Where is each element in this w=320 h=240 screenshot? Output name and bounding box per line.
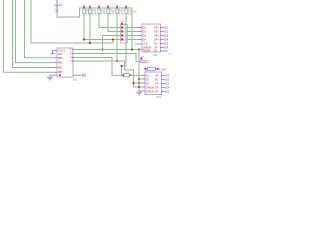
svg-text:NC: NC [154, 44, 158, 46]
node dot R14 end [116, 60, 118, 62]
svg-text:A/D1: A/D1 [163, 27, 169, 30]
svg-text:OP: OP [154, 48, 158, 50]
svg-text:RB2: RB2 [58, 67, 63, 69]
svg-text:RDWP: RDWP [143, 51, 150, 53]
svg-text:A/D7: A/D7 [163, 50, 169, 53]
svg-text:5V: 5V [134, 11, 137, 14]
IC U3 [142, 24, 161, 53]
IC U4 [145, 72, 162, 95]
resistor R10 [83, 9, 91, 15]
resistor R11 [89, 9, 97, 15]
wire net row4 upturn from y43 [112, 40, 114, 44]
wire stair line 4 [25, 0, 56, 58]
node dot bus drop [131, 48, 133, 50]
pin stubs U4 left [143, 75, 145, 91]
wire R12 down to pack pin1 [99, 14, 121, 28]
wire stub pin79 [139, 78, 143, 80]
power pin U2 top left [51, 51, 57, 54]
diode D2 [140, 57, 147, 64]
svg-text:X16: X16 [73, 78, 78, 82]
resistor R13 [107, 9, 115, 15]
svg-text:LPBUM: LPBUM [146, 91, 154, 93]
wire pin83 tap [134, 82, 144, 84]
ground right net [137, 91, 142, 95]
net labels U4 right [164, 75, 170, 94]
wire pack pin3 from P1 net [103, 36, 122, 50]
node dot pin83 cross [138, 82, 140, 84]
svg-text:NC: NC [155, 79, 159, 81]
wire bus stair line 1 [4, 0, 56, 72]
node dot at 87 [138, 86, 140, 88]
wire R15 down jog [122, 14, 127, 74]
wire bus end drop [131, 8, 133, 50]
resistor R14 [116, 9, 124, 15]
svg-text:X11: X11 [157, 95, 162, 99]
svg-text:LPBUM: LPBUM [143, 48, 151, 50]
svg-text:OP: OP [155, 75, 159, 77]
wire pack out 4 [127, 39, 140, 41]
node dot P1 tap [101, 48, 103, 50]
wire stair line 3 [16, 0, 56, 63]
svg-text:OP: OP [155, 87, 159, 89]
node junction pins on bus [83, 6, 127, 8]
resistor R16 horizontal [144, 68, 167, 72]
pin stubs U4 right [162, 76, 164, 92]
wire stub pin91 [139, 90, 143, 92]
resistor R15 [125, 9, 133, 15]
svg-text:A/D5: A/D5 [164, 91, 170, 94]
wire U2 out P2 with ground drop [75, 54, 141, 62]
svg-text:RA0: RA0 [58, 53, 63, 56]
node dot R15 end [120, 65, 122, 67]
IC U2 microcontroller [57, 48, 73, 77]
svg-text:OP1: OP1 [154, 27, 159, 29]
resistor pack RP1 [121, 22, 128, 43]
wire right vertical net [138, 50, 140, 92]
node dot R10 [83, 38, 85, 40]
svg-text:A/D5: A/D5 [163, 43, 169, 46]
svg-text:A/D1: A/D1 [164, 75, 170, 78]
node dot at 79 [138, 78, 140, 80]
svg-text:A/D3: A/D3 [164, 83, 170, 86]
pin stubs U2 left [56, 58, 58, 73]
wire U2 out P1 [75, 49, 143, 51]
svg-text:CLK: CLK [143, 44, 148, 46]
svg-text:OP3: OP3 [154, 35, 159, 37]
wire CLK stub [136, 43, 143, 45]
svg-text:4.7k: 4.7k [110, 12, 115, 15]
svg-text:4.7k: 4.7k [92, 12, 97, 15]
svg-text:ADT: ADT [162, 68, 167, 71]
svg-text:RB0: RB0 [58, 58, 63, 60]
node dot row4 join [112, 38, 114, 40]
wire R15 through pack [125, 25, 127, 44]
svg-text:A/D3: A/D3 [163, 35, 169, 38]
wire pack out 3 [127, 35, 140, 37]
power V5 [55, 0, 60, 10]
wire U2 out P3 [75, 58, 123, 76]
svg-text:CN: CN [124, 24, 128, 26]
wire GND rail left [50, 74, 57, 76]
wire crystal out to U4 pin75 [130, 74, 143, 76]
svg-text:RB3: RB3 [58, 72, 63, 74]
pin stubs U3 left [140, 28, 142, 40]
pin stubs U2 right [73, 50, 75, 62]
svg-text:24C: 24C [168, 53, 173, 56]
svg-text:OSC1: OSC1 [59, 51, 66, 53]
svg-text:RB1: RB1 [58, 63, 63, 65]
svg-text:X11: X11 [153, 53, 158, 57]
node dot right drop [138, 48, 140, 50]
svg-text:UP: UP [155, 91, 159, 93]
svg-text:A/D2: A/D2 [163, 31, 169, 34]
wire stub to U4 top [145, 70, 147, 72]
svg-text:4.7k: 4.7k [101, 12, 106, 15]
svg-text:A/D6: A/D6 [163, 47, 169, 50]
svg-text:LPBUM: LPBUM [146, 87, 154, 89]
wire R13 down to pack pin2 [108, 14, 121, 32]
wire V5 feed [57, 8, 132, 17]
wire R10 down to net row4 [84, 14, 121, 40]
power flag X on gnd [83, 74, 86, 77]
net labels U3 right [163, 27, 169, 53]
svg-text:4.7k: 4.7k [119, 12, 124, 15]
wire pack out 2 [127, 31, 140, 33]
pin stubs U3 right [161, 28, 163, 52]
svg-text:OP4: OP4 [154, 39, 159, 41]
svg-text:A/D4: A/D4 [163, 39, 169, 42]
svg-text:V5: V5 [59, 2, 63, 6]
crystal Y1 [122, 72, 132, 77]
power flag X [56, 10, 59, 13]
wire GND rail right [73, 74, 83, 76]
svg-text:OP: OP [155, 83, 159, 85]
wire U2 out P4 [75, 61, 144, 87]
ground U2 bottom [47, 75, 52, 80]
svg-text:OP: OP [154, 51, 158, 53]
wire R11 down [89, 14, 91, 43]
svg-text:A/D4: A/D4 [164, 87, 170, 90]
node pin mark [59, 74, 61, 76]
svg-text:OP2: OP2 [154, 31, 159, 33]
node dot pin83 tap [132, 82, 134, 84]
node dot R11 [89, 42, 91, 44]
wire R14 down [116, 14, 118, 61]
wire stair line 5 to net row4 [31, 0, 113, 43]
wire stair line 2 [13, 0, 56, 68]
wire pack out 1 [127, 27, 140, 29]
resistor R12 [98, 9, 106, 15]
svg-text:A/D2: A/D2 [164, 79, 170, 82]
